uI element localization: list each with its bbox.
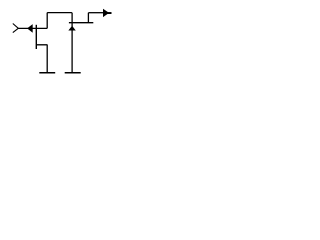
transistor Q1 bar bbox=[35, 25, 37, 49]
ground G1 bbox=[39, 72, 55, 74]
output port OUT arrow bbox=[103, 9, 109, 17]
wire top rail to Q2 bbox=[47, 12, 72, 14]
output port stub bbox=[108, 12, 112, 14]
transistor Q2 bar bbox=[69, 22, 93, 24]
input port IN bbox=[13, 24, 18, 33]
wire input to Q1 base corner bbox=[18, 27, 47, 29]
wire Q2 emitter down to ground G2 bbox=[71, 23, 73, 73]
wire down to Q2 bar bbox=[71, 13, 73, 23]
wire Q2 up to output rail bbox=[87, 13, 89, 23]
wire down to ground G1 bbox=[46, 45, 48, 73]
wire Q1 up to top rail bbox=[46, 13, 48, 29]
wire output rail bbox=[88, 12, 103, 14]
ground G2 bbox=[65, 72, 81, 74]
emitter arrow of Q1 bbox=[27, 24, 33, 33]
wire Q1 bottom to ground corner bbox=[36, 44, 47, 46]
emitter arrow of Q2 bbox=[68, 26, 75, 31]
